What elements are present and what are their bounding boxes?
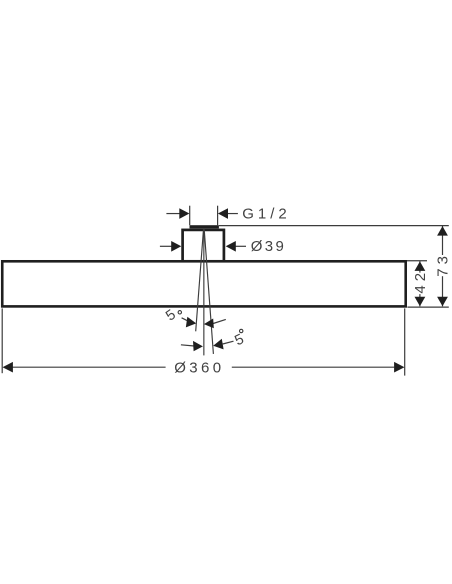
svg-text:Ø39: Ø39 xyxy=(251,238,287,255)
svg-text:G1/2: G1/2 xyxy=(242,206,291,223)
svg-text:73: 73 xyxy=(435,252,452,277)
svg-text:42: 42 xyxy=(412,269,429,294)
svg-text:Ø360: Ø360 xyxy=(174,360,224,377)
